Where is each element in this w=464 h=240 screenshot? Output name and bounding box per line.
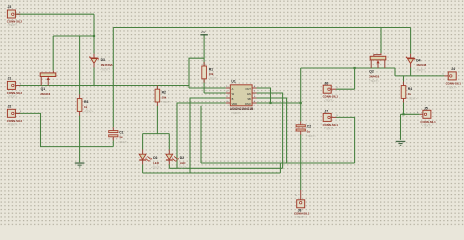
svg-text:<TEXT>: <TEXT> [324, 98, 334, 102]
wire U1 right pin row2 loop [257, 93, 283, 168]
svg-text:<TEXT>: <TEXT> [295, 215, 305, 219]
wire U1 right pin row1 to row4 [257, 88, 271, 103]
wire J5 to ground [401, 114, 420, 140]
svg-text:Q1: Q1 [41, 87, 46, 91]
connector J1 [7, 76, 23, 98]
svg-text:LED: LED [153, 161, 159, 165]
svg-text:1u: 1u [119, 135, 123, 139]
LED D1 [139, 150, 161, 170]
svg-text:EN: EN [247, 92, 251, 96]
junction rail J6 [354, 67, 356, 69]
node A junction [93, 35, 95, 37]
power terminal +5V [200, 30, 207, 35]
svg-text:OUT: OUT [245, 87, 251, 91]
svg-text:J2: J2 [8, 104, 12, 108]
svg-text:CONN-SIL2: CONN-SIL2 [7, 91, 23, 95]
wire C2 column upper [300, 68, 302, 121]
wire U1 pin4 left loop [177, 103, 226, 168]
svg-text:R4: R4 [408, 87, 412, 91]
wire loop1 left drop [200, 106, 202, 163]
svg-text:<TEXT>: <TEXT> [208, 77, 218, 81]
wire R4 top [403, 76, 405, 82]
svg-text:U1: U1 [231, 80, 235, 84]
svg-text:CONN-SIL1: CONN-SIL1 [446, 82, 462, 86]
junction R4 ground [402, 113, 404, 115]
wire D1 line riser [279, 163, 281, 173]
connector J5 [417, 107, 436, 128]
wire node A to D3 [93, 36, 95, 54]
svg-text:+5V: +5V [201, 30, 206, 34]
wire D4 to J4 rail [410, 67, 412, 76]
svg-text:CONN-SIL1: CONN-SIL1 [323, 123, 339, 127]
svg-text:D4: D4 [416, 58, 420, 62]
resistor R3 [77, 94, 94, 115]
wire R3 to ground [79, 116, 81, 163]
wire U1 pin5 to C2 column [257, 102, 301, 104]
wire bus to R2 [156, 86, 158, 90]
connector J2 [7, 104, 23, 126]
wire pin1 riser [189, 58, 204, 88]
wire D2 cathode down [168, 164, 170, 168]
wire J2 to C1 [16, 113, 114, 146]
wire R1 bottom to U1 pin2 [204, 79, 226, 93]
junction C2 column [300, 102, 302, 104]
svg-text:C2: C2 [307, 125, 311, 129]
svg-text:<TEXT>: <TEXT> [407, 96, 417, 100]
svg-text:CONN-SIL2: CONN-SIL2 [7, 119, 23, 123]
wire D2 loop bottom [169, 167, 282, 169]
zener diode D3 [89, 54, 112, 72]
wire D1 cathode down [142, 164, 144, 173]
wire top rail H2 [113, 27, 410, 29]
svg-text:CONN-SIL1: CONN-SIL1 [420, 120, 436, 124]
wire split to D2 [168, 134, 170, 150]
junction row1 row4 [269, 102, 271, 104]
svg-text:D1: D1 [153, 156, 157, 160]
svg-text:<TEXT>: <TEXT> [40, 96, 50, 100]
svg-text:D2: D2 [180, 156, 184, 160]
potentiometer Q2 [369, 53, 386, 83]
svg-text:<TEXT>: <TEXT> [178, 166, 188, 170]
svg-text:Q2: Q2 [369, 70, 374, 74]
wire D1 loop bottom [143, 172, 281, 174]
connector J8 [294, 190, 310, 219]
connector J7 [323, 110, 339, 131]
wire C2 column lower to J8 [300, 134, 302, 190]
svg-text:10k: 10k [162, 95, 167, 99]
wire Q2 top drop [380, 28, 382, 54]
wire top right rail to J4 [301, 68, 445, 76]
svg-text:1u: 1u [307, 129, 311, 133]
svg-text:R1: R1 [209, 67, 213, 71]
svg-text:LED: LED [180, 161, 186, 165]
svg-text:CONN-SIL1: CONN-SIL1 [294, 211, 310, 215]
wire split to D1 [142, 134, 144, 150]
svg-text:CONN-SIL1: CONN-SIL1 [323, 95, 339, 99]
wire D3 to bus [93, 67, 95, 85]
wire node A to R3 [79, 36, 81, 94]
connector J6 [323, 81, 339, 102]
wire R4 bottom [403, 103, 405, 115]
svg-text:A: A [232, 87, 234, 91]
svg-text:<TEXT>: <TEXT> [118, 140, 128, 144]
wire J7 to loop1 [336, 117, 355, 163]
svg-text:<TEXT>: <TEXT> [100, 68, 110, 72]
svg-text:VDD: VDD [232, 102, 238, 106]
svg-text:2N4416: 2N4416 [40, 92, 50, 96]
svg-text:DSO: DSO [245, 102, 251, 106]
resistor R1 [202, 62, 219, 83]
svg-text:R2: R2 [162, 91, 166, 95]
svg-text:<TEXT>: <TEXT> [306, 134, 316, 138]
wire node A horizontal [53, 35, 94, 37]
svg-text:CONN-SIL2: CONN-SIL2 [7, 20, 23, 24]
svg-text:<TEXT>: <TEXT> [83, 109, 93, 113]
svg-text:<TEXT>: <TEXT> [151, 166, 161, 170]
svg-text:<TEXT>: <TEXT> [369, 79, 379, 83]
svg-text:B: B [232, 97, 234, 101]
wire loop1 bottom to J7 riser [201, 162, 355, 164]
svg-text:<TEXT>: <TEXT> [161, 100, 171, 104]
svg-text:1k: 1k [408, 92, 412, 96]
svg-text:<TEXT>: <TEXT> [7, 95, 17, 99]
wire J3 to node A [16, 14, 94, 36]
svg-text:J4: J4 [451, 67, 455, 71]
svg-text:1N4148: 1N4148 [416, 63, 426, 67]
svg-text:J1: J1 [8, 76, 12, 80]
wire U1 pin1 [189, 87, 226, 89]
resistor R4 [401, 82, 417, 103]
svg-text:<TEXT>: <TEXT> [447, 85, 457, 89]
svg-text:C1: C1 [119, 130, 123, 134]
wire power to R1 top [203, 36, 205, 67]
IC U1 [226, 80, 257, 115]
wire H2 to C1 [112, 28, 114, 128]
ground (right) [396, 141, 406, 146]
svg-text:10k: 10k [209, 72, 214, 76]
svg-text:J3: J3 [8, 5, 12, 9]
connector J3 [7, 5, 23, 27]
svg-text:1k: 1k [84, 105, 88, 109]
svg-text:<TEXT>: <TEXT> [324, 127, 334, 131]
wire R2 bottom to LED split [156, 106, 158, 134]
LED D2 [166, 150, 188, 170]
wire LED split horizontal [143, 133, 170, 135]
svg-text:1N4733A: 1N4733A [101, 63, 113, 67]
wire Q1 right to node A [52, 36, 54, 71]
svg-text:<TEXT>: <TEXT> [415, 68, 425, 72]
wire rail to J6 [336, 68, 355, 89]
svg-text:SB: SB [247, 97, 251, 101]
resistor R2 [155, 86, 171, 107]
wire main bus J1 to U1 pin1 riser [16, 85, 189, 87]
connector J4 [442, 67, 461, 89]
wire U1 right pin row3 loop [257, 98, 287, 163]
svg-text:<TEXT>: <TEXT> [7, 23, 17, 27]
potentiometer Q1 [40, 71, 56, 100]
svg-text:2N4416: 2N4416 [369, 74, 379, 78]
svg-text:D3: D3 [101, 58, 105, 62]
svg-text:<TEXT>: <TEXT> [7, 123, 17, 127]
capacitor C1 [109, 127, 129, 144]
ground (left) [75, 162, 85, 167]
wire H2 to D4 [410, 28, 412, 54]
svg-text:AS62N21NN21B: AS62N21NN21B [230, 107, 254, 111]
wire C1 bottom [112, 140, 114, 146]
svg-text:R3: R3 [84, 100, 88, 104]
svg-text:<TEXT>: <TEXT> [231, 111, 241, 115]
svg-text:<TEXT>: <TEXT> [422, 124, 432, 128]
zener diode D4 [406, 54, 427, 72]
wire U1 pin3 left loop [190, 98, 226, 173]
capacitor C2 [296, 121, 316, 138]
